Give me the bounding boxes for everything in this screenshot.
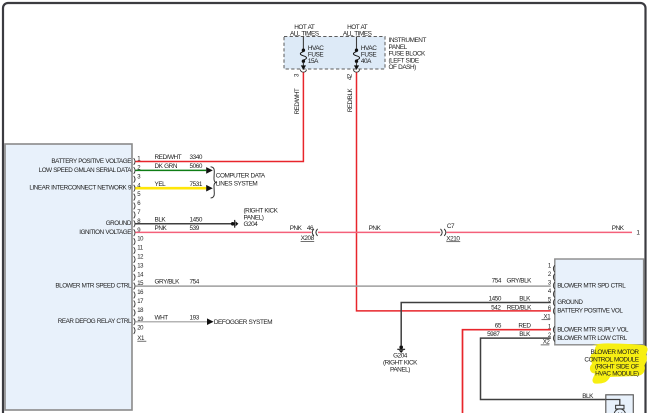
pin 12 (left module connector X1) bbox=[134, 255, 144, 263]
svg-text:RED: RED bbox=[518, 322, 531, 329]
wire PNK 539: pin 9 ignition voltage across page bbox=[135, 231, 632, 233]
svg-text:40A: 40A bbox=[361, 58, 372, 65]
label DEFOGGER SYSTEM bbox=[214, 319, 272, 326]
svg-text:754: 754 bbox=[492, 278, 502, 285]
wire GRY/BLK 754: pin 15 to module pin 3 bbox=[135, 285, 551, 287]
label instrument panel fuse block location bbox=[389, 37, 427, 71]
label X208 bbox=[301, 235, 315, 242]
label module pin: GROUND bbox=[557, 299, 583, 306]
wire BLK 1450: module pin 5 to ground G204 right bbox=[401, 303, 551, 346]
svg-text:PNK: PNK bbox=[369, 225, 382, 232]
label module pin: BLOWER MTR SPD CTRL bbox=[557, 282, 626, 289]
svg-text:542: 542 bbox=[491, 305, 501, 312]
svg-text:3340: 3340 bbox=[190, 154, 203, 161]
connector X208 pin 46 (in-line) bbox=[312, 229, 317, 236]
label RED/BLK (vertical) bbox=[347, 88, 354, 113]
svg-text:65: 65 bbox=[495, 322, 502, 329]
label X210 bbox=[446, 235, 460, 242]
labels 754 GRY/BLK (right) bbox=[492, 278, 533, 285]
pin 1 (left module connector X1) bbox=[134, 157, 142, 165]
svg-text:5987: 5987 bbox=[487, 331, 500, 338]
instrument panel fuse block (dashed box) bbox=[284, 37, 385, 70]
svg-text:PNK: PNK bbox=[290, 225, 303, 232]
label left module pin 4: LINEAR INTERCONNECT NETWORK 9 bbox=[29, 185, 132, 192]
pin 6 (left module connector X1) bbox=[134, 201, 142, 209]
ground G204 symbol (right, down arrow) bbox=[397, 345, 405, 353]
connector id X2 (blower motor control module) bbox=[541, 339, 551, 346]
pin 1 (right page edge, PNK wire) bbox=[636, 229, 640, 236]
highlight: blower motor control module callout bbox=[590, 343, 648, 383]
pin 10 (left module connector X1) bbox=[134, 237, 144, 245]
svg-text:X1: X1 bbox=[137, 335, 145, 342]
pin 4 (left module connector X1) bbox=[134, 183, 142, 191]
pin 2 (left module connector X1) bbox=[134, 166, 142, 174]
pin 8 (left module connector X1) bbox=[134, 219, 142, 227]
svg-text:G204: G204 bbox=[244, 221, 259, 228]
label HVAC FUSE 15A bbox=[308, 45, 324, 65]
pin 1 (blower motor control module X2) bbox=[548, 325, 555, 334]
svg-text:BLOWER MTR SUPLY VOL: BLOWER MTR SUPLY VOL bbox=[557, 326, 629, 333]
net HOT AT ALL TIMES (fuse 40A feed) bbox=[343, 24, 372, 37]
pin 16 (left module connector X1) bbox=[134, 290, 144, 298]
svg-text:BLOWER MTR SPD CTRL: BLOWER MTR SPD CTRL bbox=[557, 282, 626, 289]
svg-text:1450: 1450 bbox=[190, 216, 203, 223]
pin 5 (blower motor control module X1) bbox=[548, 297, 555, 306]
wire WHT 193: pin 19 to defogger system bbox=[135, 321, 207, 323]
left module (HVAC controls module) box bbox=[5, 144, 132, 410]
arrow to defogger system bbox=[207, 318, 214, 325]
svg-text:PNK: PNK bbox=[155, 225, 168, 232]
svg-text:BLOWER MOTOR: BLOWER MOTOR bbox=[591, 349, 640, 356]
wire YEL 7531: pin 4 to computer data lines bbox=[135, 187, 206, 190]
connector id X1 (blower motor control module) bbox=[542, 313, 552, 320]
label left module pin 1: BATTERY POSITIVE VOLTAGE bbox=[51, 158, 131, 165]
connector id X1 (left module) bbox=[137, 335, 146, 342]
label C7 bbox=[447, 223, 455, 230]
wire DK GRN 5060: pin 2 to computer data lines bbox=[135, 169, 206, 171]
labels RED/WHT 3340 bbox=[155, 154, 203, 161]
svg-text:CONTROL MODULE: CONTROL MODULE bbox=[584, 356, 638, 363]
svg-text:LOW SPEED GMLAN SERIAL DATA: LOW SPEED GMLAN SERIAL DATA bbox=[39, 167, 133, 174]
pin 3 (fuse block, fuse 15A output) bbox=[294, 73, 301, 77]
labels BLK 1450 bbox=[155, 216, 203, 223]
pin 6 (blower motor control module X1) bbox=[548, 306, 555, 315]
svg-text:RED/WHT: RED/WHT bbox=[294, 88, 301, 114]
svg-text:PNK: PNK bbox=[612, 225, 625, 232]
label module pin: BLOWER MTR LOW CTRL bbox=[557, 335, 627, 342]
label PNK (mid span) bbox=[369, 225, 382, 232]
svg-text:DK GRN: DK GRN bbox=[155, 163, 178, 170]
svg-text:BLK: BLK bbox=[519, 296, 531, 303]
svg-text:PANEL): PANEL) bbox=[390, 367, 410, 374]
label G204 (RIGHT KICK PANEL) bbox=[244, 207, 279, 228]
label BLOWER MOTOR CONTROL MODULE (RIGHT SIDE OF HVAC MODULE) bbox=[584, 349, 639, 377]
svg-text:LINEAR INTERCONNECT NETWORK 9: LINEAR INTERCONNECT NETWORK 9 bbox=[29, 185, 132, 192]
svg-text:GROUND: GROUND bbox=[557, 299, 583, 306]
svg-text:GROUND: GROUND bbox=[106, 220, 132, 227]
pin 2 (blower motor control module X2) bbox=[548, 333, 555, 342]
svg-text:46: 46 bbox=[307, 225, 314, 232]
pin 14 (left module connector X1) bbox=[134, 272, 144, 280]
label left module pin 19: REAR DEFOG RELAY CTRL bbox=[58, 318, 132, 325]
wire BLK 1450: pin 8 to ground G204 bbox=[135, 223, 232, 225]
blower motor control module box bbox=[555, 259, 644, 345]
label PNK (right span) bbox=[612, 225, 625, 232]
label left module pin 8: GROUND bbox=[106, 220, 132, 227]
svg-text:BATTERY POSITIVE VOL: BATTERY POSITIVE VOL bbox=[557, 308, 623, 315]
svg-text:754: 754 bbox=[190, 278, 200, 285]
wire RED 65: module X2 pin 1 blower supply down off page bbox=[463, 330, 551, 413]
labels GRY/BLK 754 (left) bbox=[155, 278, 200, 285]
svg-text:REAR DEFOG RELAY CTRL: REAR DEFOG RELAY CTRL bbox=[58, 318, 132, 325]
pin 20 (left module connector X1) bbox=[134, 326, 144, 334]
svg-text:7531: 7531 bbox=[190, 181, 203, 188]
labels YEL 7531 bbox=[155, 181, 203, 188]
fuse F1 HVAC FUSE 15A bbox=[300, 37, 306, 73]
label G204 (RIGHT KICK PANEL) right bbox=[383, 352, 418, 373]
svg-text:DEFOGGER SYSTEM: DEFOGGER SYSTEM bbox=[214, 319, 272, 326]
svg-text:193: 193 bbox=[190, 314, 200, 321]
svg-text:WHT: WHT bbox=[155, 314, 169, 321]
blower motor box bbox=[606, 395, 634, 413]
pin 3 (blower motor control module X1) bbox=[548, 280, 555, 289]
label module pin: BATTERY POSITIVE VOL bbox=[557, 308, 623, 315]
pin 42 (fuse block, fuse 40A output) bbox=[347, 73, 354, 80]
ground G204 symbol (right kick panel) bbox=[231, 220, 239, 228]
net HOT AT ALL TIMES (fuse 15A feed) bbox=[290, 24, 319, 37]
svg-text:BATTERY POSITIVE VOLTAGE: BATTERY POSITIVE VOLTAGE bbox=[51, 158, 131, 165]
labels 5987 BLK bbox=[487, 331, 531, 338]
pin 7 (left module connector X1) bbox=[134, 210, 142, 218]
label BLK (near blower motor) bbox=[582, 393, 594, 400]
brace computer data lines bbox=[211, 167, 216, 198]
svg-text:YEL: YEL bbox=[155, 181, 167, 188]
label PNK 46 at X208 bbox=[290, 225, 314, 232]
fuse F2 HVAC FUSE 40A bbox=[353, 37, 359, 73]
pin 15 (left module connector X1) bbox=[134, 281, 144, 289]
svg-text:BLOWER MTR SPEED CTRL: BLOWER MTR SPEED CTRL bbox=[55, 283, 132, 290]
pin 2 (blower motor control module X1) bbox=[548, 272, 555, 281]
pin 17 (left module connector X1) bbox=[134, 299, 144, 307]
labels DK GRN 5060 bbox=[155, 163, 203, 170]
svg-text:5060: 5060 bbox=[190, 163, 203, 170]
label left module pin 9: IGNITION VOLTAGE bbox=[79, 229, 131, 236]
svg-text:539: 539 bbox=[190, 225, 200, 232]
svg-text:LINES SYSTEM: LINES SYSTEM bbox=[216, 180, 258, 187]
svg-text:C7: C7 bbox=[447, 223, 455, 230]
labels PNK 539 bbox=[155, 225, 200, 232]
label RED/WHT (vertical) bbox=[294, 88, 301, 114]
label left module pin 2: LOW SPEED GMLAN SERIAL DATA bbox=[39, 167, 133, 174]
labels 542 RED/BLK bbox=[491, 305, 532, 312]
pin 19 (left module connector X1) bbox=[134, 317, 144, 325]
svg-text:HVAC MODULE): HVAC MODULE) bbox=[595, 371, 639, 378]
svg-text:RED/BLK: RED/BLK bbox=[347, 88, 354, 113]
pin 18 (left module connector X1) bbox=[134, 308, 144, 316]
pin 11 (left module connector X1) bbox=[134, 246, 144, 254]
svg-text:RED/WHT: RED/WHT bbox=[155, 154, 182, 161]
wire BLK 5987: module X2 pin 2 to blower motor bbox=[481, 338, 606, 399]
pin 13 (left module connector X1) bbox=[134, 263, 144, 271]
svg-text:BLK: BLK bbox=[155, 216, 167, 223]
labels 1450 BLK (right) bbox=[489, 296, 532, 303]
svg-text:OF DASH): OF DASH) bbox=[389, 64, 417, 71]
pin 5 (left module connector X1) bbox=[134, 192, 142, 200]
svg-text:ALL TIMES: ALL TIMES bbox=[343, 31, 372, 38]
pin 9 (left module connector X1) bbox=[134, 228, 142, 236]
connector X210 C7 (in-line) bbox=[441, 229, 446, 236]
svg-text:ALL TIMES: ALL TIMES bbox=[290, 31, 319, 38]
svg-text:RED/BLK: RED/BLK bbox=[507, 305, 532, 312]
label HVAC FUSE 40A bbox=[361, 45, 377, 65]
svg-text:G204: G204 bbox=[393, 352, 408, 359]
arrow to computer data lines (YEL) bbox=[206, 185, 213, 192]
wire RED/WHT 3340: fuse 15A down and left to left module pin 1 bbox=[135, 72, 303, 161]
pin 4 (blower motor control module X1) bbox=[548, 289, 555, 298]
label COMPUTER DATA LINES SYSTEM bbox=[216, 173, 266, 188]
svg-text:42: 42 bbox=[347, 73, 354, 80]
svg-text:GRY/BLK: GRY/BLK bbox=[155, 278, 181, 285]
blower motor M1 symbol bbox=[606, 400, 626, 413]
svg-text:BLOWER MTR LOW CTRL: BLOWER MTR LOW CTRL bbox=[557, 335, 627, 342]
svg-text:GRY/BLK: GRY/BLK bbox=[507, 278, 533, 285]
pin 1 (blower motor control module X1) bbox=[548, 264, 555, 273]
arrow to computer data lines (DK GRN) bbox=[206, 167, 213, 174]
svg-text:COMPUTER DATA: COMPUTER DATA bbox=[216, 173, 266, 180]
pin 3 (left module connector X1) bbox=[134, 174, 142, 182]
label module pin: BLOWER MTR SUPLY VOL bbox=[557, 326, 629, 333]
svg-text:BLK: BLK bbox=[582, 393, 594, 400]
svg-text:(RIGHT SIDE OF: (RIGHT SIDE OF bbox=[595, 363, 639, 370]
svg-text:1450: 1450 bbox=[489, 296, 502, 303]
label left module pin 15: BLOWER MTR SPEED CTRL bbox=[55, 283, 132, 290]
labels WHT 193 bbox=[155, 314, 200, 321]
svg-text:BLK: BLK bbox=[519, 331, 531, 338]
svg-text:IGNITION VOLTAGE: IGNITION VOLTAGE bbox=[79, 229, 131, 236]
wire RED/BLK 542: fuse 40A down to module pin 6 bbox=[357, 72, 551, 311]
svg-text:15A: 15A bbox=[308, 58, 319, 65]
svg-text:(RIGHT KICK: (RIGHT KICK bbox=[244, 207, 279, 214]
labels 65 RED bbox=[495, 322, 532, 329]
